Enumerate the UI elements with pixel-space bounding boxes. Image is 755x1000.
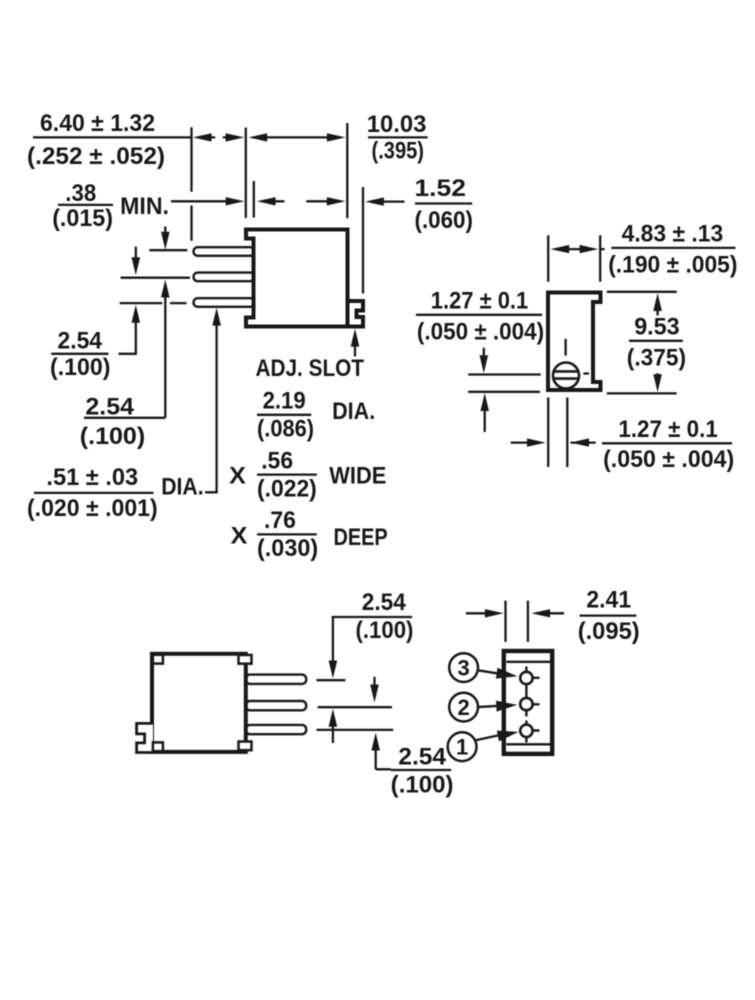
dimension line 1.27 lower (tails) (511, 441, 596, 443)
svg-text:(.022): (.022) (257, 475, 317, 502)
fraction bar 4.83/(.190) (611, 247, 735, 249)
extension line: body bottom left (1.27 upper) (468, 391, 540, 393)
arrowhead 2.54 up (pin B) (329, 709, 338, 727)
callout circle 3 (449, 653, 478, 682)
pin B centerline reference (318, 706, 392, 708)
pin 1 centerline reference (149, 249, 187, 251)
svg-text:4.83 ± .13: 4.83 ± .13 (622, 221, 724, 248)
extension line: screw centerline left (1.27 upper) (468, 373, 541, 375)
terminal 3 circle (520, 672, 532, 684)
side view: screw centerline dash right (583, 372, 589, 374)
arrowhead 9.53 down (653, 374, 662, 392)
arrowhead 4.83 left (551, 245, 570, 253)
svg-text:2.54: 2.54 (398, 744, 446, 771)
svg-text:2.54: 2.54 (85, 393, 134, 420)
pin 2 centerline reference (121, 277, 191, 279)
arrowhead 2.54 pitch up (pin 3) (132, 305, 141, 323)
rear view: pin C (246, 725, 306, 734)
pin 1 (front view, top lead) (194, 247, 255, 256)
svg-text:(.100): (.100) (356, 617, 414, 644)
arrowhead 1.52 right (327, 197, 346, 205)
terminal 1 circle (520, 725, 532, 737)
svg-text:(.395): (.395) (372, 138, 425, 165)
fraction bar 9.53/(.375) (629, 340, 683, 342)
svg-text:(.015): (.015) (52, 205, 113, 232)
leader 2.54 top (elbow and fraction bar) (332, 617, 413, 661)
extension line 9.53 bottom (607, 392, 677, 394)
svg-text:1.27 ± 0.1: 1.27 ± 0.1 (431, 287, 528, 314)
dimension line 6.40 (with fraction bar of 6.40/.252) (33, 136, 226, 138)
svg-text:ADJ. SLOT: ADJ. SLOT (256, 355, 365, 382)
arrowhead 2.54 pitch up (pin 2) (161, 280, 170, 298)
svg-text:.51 ± .03: .51 ± .03 (46, 464, 138, 491)
pin 3 centerline reference (120, 302, 187, 304)
callout circle 1 (448, 732, 477, 761)
arrowhead 9.53 up (653, 293, 662, 311)
dimension line 4.83 (middle tails and right stub) (569, 248, 605, 250)
svg-text:(.100): (.100) (391, 772, 454, 799)
svg-text:(.050 ± .004): (.050 ± .004) (417, 319, 544, 346)
fraction bar 2.41/(.095) (580, 614, 637, 616)
svg-text:DEEP: DEEP (334, 524, 388, 551)
svg-text:X: X (231, 522, 248, 549)
leader 1.27 upper (arrow tails) (483, 348, 486, 432)
leader 2.54 upper (tail of outside arrows) (84, 227, 165, 418)
fraction bar 1.52/(.060) (415, 202, 472, 204)
terminal view: upper cap line (507, 661, 551, 663)
leader arrow tail (up) below pin B (332, 726, 334, 743)
leader 9.53 (arrow tails) (656, 310, 658, 376)
svg-text:2.54: 2.54 (58, 327, 103, 354)
extension lines 2.41 (terminal view) (506, 601, 528, 642)
arrowhead 2.54 pitch down (pin 1) (161, 232, 170, 250)
dimension line 1.52 (tail) (384, 200, 405, 202)
svg-text:2.19: 2.19 (263, 388, 306, 415)
rear view: corner standoff bottom-right (239, 742, 252, 751)
side view: screw slot chord lower (554, 377, 579, 380)
svg-text:(.252 ± .052): (.252 ± .052) (27, 143, 165, 170)
svg-text:WIDE: WIDE (329, 463, 386, 490)
arrowhead 10.03 left (249, 133, 268, 141)
arrowhead 1.52 left (365, 197, 384, 205)
svg-text:10.03: 10.03 (367, 111, 427, 138)
svg-text:(.375): (.375) (627, 345, 686, 372)
side view: screw centerline above (564, 339, 566, 356)
arrowhead 1.27 lower right (527, 438, 546, 446)
extension lines 1.27 lower (body edge and screw centre) (548, 398, 567, 468)
leader ADJ. SLOT (tail) (354, 346, 356, 357)
dimension line 2.41 (tails) (466, 612, 564, 614)
arrowhead callout 1 (497, 731, 519, 742)
svg-text:1: 1 (456, 735, 468, 760)
terminal view: lower cap line (507, 743, 551, 745)
dimension line 10.03 (266, 136, 327, 138)
side view: screw head circle (553, 363, 579, 389)
arrowhead 2.54 top down (rear view) (329, 661, 338, 679)
arrowhead 2.41 right (485, 609, 504, 617)
svg-text:DIA.: DIA. (161, 474, 203, 501)
callout circle 2 (449, 693, 478, 722)
body outline (front view) (246, 230, 363, 327)
svg-text:1.52: 1.52 (415, 175, 466, 202)
svg-text:2: 2 (457, 695, 469, 720)
fraction bar 2.19/(.086) (257, 414, 311, 416)
arrowhead .38 MIN right (226, 197, 245, 205)
arrowhead callout 3 (496, 668, 518, 679)
arrowhead .38 MIN left (257, 197, 276, 205)
pin 2 (front view, middle lead) (194, 273, 255, 282)
arrowhead .51 DIA up (212, 308, 221, 326)
svg-text:2.41: 2.41 (586, 587, 631, 614)
extension lines 4.83 (body width, side view) (548, 235, 600, 281)
svg-text:(.060): (.060) (415, 207, 473, 234)
svg-text:X: X (229, 463, 246, 490)
arrowhead ADJ. SLOT up (351, 329, 360, 347)
arrowhead 1.27 upper up (480, 393, 489, 411)
svg-text:(.020 ± .001): (.020 ± .001) (27, 495, 158, 522)
extension line 9.53 top (607, 291, 677, 293)
leader .51 DIA (vertical from pin 3 to elbow) (205, 325, 218, 492)
fraction bar .76/(.030) (257, 533, 317, 535)
svg-text:2.54: 2.54 (362, 589, 407, 616)
arrowhead 1.27 lower left (570, 438, 589, 446)
fraction bar 1.27/(.050) upper (416, 314, 542, 316)
arrowhead 6.40 right (226, 133, 245, 141)
rear view: corner standoff bottom-left (153, 742, 163, 751)
pin 3 (front view, bottom lead) (194, 298, 255, 307)
fraction bar .38/(.015) (58, 204, 113, 206)
terminal tick marks right (533, 678, 540, 731)
arrowhead 2.41 left (531, 609, 550, 617)
svg-text:(.030): (.030) (257, 535, 318, 562)
fraction bar .51/(.020) (34, 492, 154, 494)
terminal 2 circle (520, 698, 532, 710)
svg-text:DIA.: DIA. (332, 398, 375, 425)
svg-text:6.40 ± 1.32: 6.40 ± 1.32 (40, 110, 155, 137)
rear view: adj-slot boss on left (137, 723, 153, 752)
side view: screw slot chord upper (554, 370, 578, 373)
terminal view: centerline through terminals (525, 667, 527, 743)
svg-text:3: 3 (457, 656, 469, 681)
leader 2.54 bottom (tail, elbow and fraction bar) (376, 750, 452, 770)
fraction bar 1.27/(.050) lower (602, 442, 732, 444)
extension line B: body step edge (x=253.8) (253, 181, 255, 218)
callout leader 3 (478, 670, 500, 674)
rear view: body outline (152, 654, 246, 752)
arrowhead 2.54 pitch down (pin 2) (132, 257, 141, 275)
svg-text:(.100): (.100) (50, 354, 111, 381)
arrowhead 1.27 upper down (480, 355, 489, 373)
callout leader 1 (475, 735, 501, 741)
arrowhead 2.54 bottom up (pin C) (371, 733, 380, 751)
arrowhead 10.03 right (327, 133, 346, 141)
arrowhead 6.40 left (193, 133, 212, 141)
fraction bar .56/(.022) (257, 473, 317, 475)
rear view: corner standoff top-right (239, 655, 252, 664)
rear view: pin B (246, 701, 306, 710)
side view: body outline (548, 293, 601, 391)
svg-text:.56: .56 (261, 447, 293, 474)
svg-text:(.190 ± .005): (.190 ± .005) (608, 252, 737, 279)
rear view: corner standoff top-left (153, 655, 163, 664)
svg-text:(.050 ± .004): (.050 ± .004) (603, 446, 734, 473)
svg-text:1.27 ± 0.1: 1.27 ± 0.1 (618, 416, 717, 443)
arrowhead 4.83 right (580, 245, 599, 253)
svg-text:(.086): (.086) (257, 416, 314, 443)
dimension line .38 MIN (171, 200, 327, 202)
extension line A: body left tab edge (x=245.8) (245, 128, 247, 219)
svg-text:.38: .38 (65, 180, 96, 207)
terminal view: body outline (504, 651, 552, 754)
svg-text:.76: .76 (264, 507, 296, 534)
svg-text:MIN.: MIN. (120, 193, 169, 220)
leader 2.54 lower (tail of outside arrows) (51, 247, 137, 354)
callout leader 2 (478, 706, 499, 707)
svg-text:(.095): (.095) (578, 618, 640, 645)
pin C centerline reference (317, 729, 394, 731)
extension line D: slot boss right edge (x=363) (362, 187, 364, 294)
body right edge through adj-slot boss (front view) (346, 301, 350, 327)
extension line: lead tip (x=191.5) (190, 127, 192, 241)
svg-text:9.53: 9.53 (634, 314, 680, 341)
svg-text:(.100): (.100) (80, 423, 145, 450)
leader arrow tail (down) at pin B (373, 677, 375, 686)
arrowhead callout 2 (496, 701, 517, 712)
fraction bar 10.03/(.395) (368, 136, 428, 138)
extension line C: body right edge (x=347.3) (346, 123, 348, 218)
rear view: pin A (246, 675, 306, 684)
pin A centerline reference (317, 679, 346, 681)
arrowhead 2.54 down (pin B) (370, 685, 379, 703)
